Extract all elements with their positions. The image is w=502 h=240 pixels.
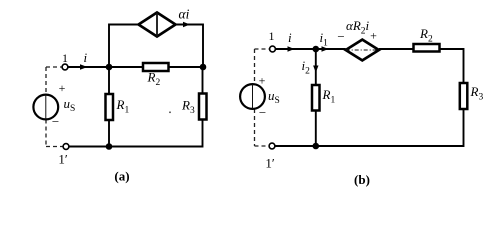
wire: R2 to right corner down to R3 (b): [440, 49, 464, 83]
svg-text:αi: αi: [179, 7, 190, 22]
svg-text:−: −: [337, 29, 344, 44]
wire: node A to R2 left (a): [109, 66, 143, 68]
node C (b): [313, 46, 320, 53]
wire: terminal 1 to node C (b): [276, 48, 317, 50]
svg-text:−: −: [52, 114, 59, 129]
voltage source u_S (a): [33, 95, 58, 120]
resistor R3 (b): [460, 83, 468, 109]
resistor R1 (b): [312, 85, 320, 111]
dependent current source alpha-i (a): [139, 13, 176, 37]
svg-text:(a): (a): [114, 169, 129, 184]
arrow alpha-i (a): [183, 22, 190, 27]
svg-text:1: 1: [62, 51, 68, 65]
svg-text:i: i: [288, 30, 292, 45]
resistor R2 (b): [414, 44, 440, 52]
svg-text:(b): (b): [354, 172, 370, 187]
arrow current i (b): [288, 46, 295, 51]
wire: node C down to R1 (b): [315, 49, 317, 85]
wire: R1 bottom to bottom wire (b): [315, 111, 317, 147]
wire: dashed source branch vertical (b): [255, 49, 270, 146]
resistor R1 (a): [106, 94, 114, 120]
svg-text:1′: 1′: [58, 152, 68, 167]
svg-text:+: +: [259, 74, 266, 88]
svg-text:1: 1: [269, 29, 275, 43]
wire: node C to diamond (b): [316, 48, 346, 50]
wire: top wire terminal1 to node A (a): [68, 66, 109, 68]
voltage source u_S (b): [240, 84, 265, 109]
speck: [169, 111, 171, 113]
dependent voltage source alpha-R2-i (b): [346, 40, 379, 61]
wire: left riser to dependent source (a): [109, 25, 139, 68]
terminal 1 (a): [62, 64, 68, 70]
svg-text:−: −: [259, 105, 266, 120]
svg-text:+: +: [59, 81, 66, 95]
node bottom (b): [313, 143, 320, 150]
svg-text:i: i: [84, 50, 88, 65]
wire: dashed source branch vertical (a): [46, 67, 63, 147]
node B (a): [200, 64, 207, 71]
wire: dependent source to right riser (a): [176, 25, 204, 68]
terminal 1 (b): [270, 46, 276, 52]
terminal 1' (b): [269, 143, 275, 149]
node bottom (a): [106, 143, 113, 150]
arrow current i1 (b): [322, 46, 329, 51]
wire: R3 bottom to bottom wire back to 1' (b): [275, 109, 464, 146]
node A (a): [106, 64, 113, 71]
svg-text:+: +: [370, 29, 377, 43]
resistor R2 (a): [143, 63, 169, 71]
wire: node B down to R3 (a): [202, 67, 204, 94]
arrow current i (a): [80, 64, 88, 69]
terminal 1' (a): [63, 144, 69, 150]
resistor R3 (a): [199, 94, 207, 120]
svg-text:1′: 1′: [265, 156, 275, 171]
wire: node A down to R1 (a): [108, 67, 110, 94]
wire: R2 right to node B (a): [169, 66, 204, 68]
wire: R3 bottom to corner (a): [69, 120, 203, 147]
wire: R1 bottom to bottom wire (a): [108, 120, 110, 147]
wire: diamond to R2 (b): [379, 48, 414, 50]
arrow current i2 (b): [313, 66, 318, 73]
